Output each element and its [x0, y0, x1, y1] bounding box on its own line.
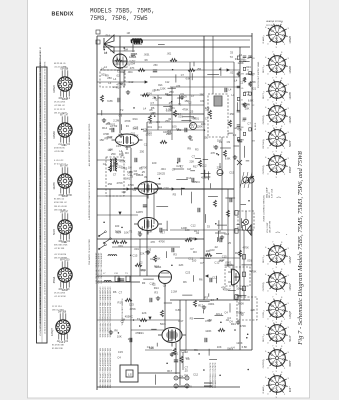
svg-text:.0001: .0001: [192, 117, 199, 121]
svg-text:C7: C7: [185, 356, 189, 360]
svg-text:IF AMP: IF AMP: [262, 386, 265, 393]
svg-text:2.2M: 2.2M: [166, 108, 173, 112]
svg-text:MODELS 75B5, 75M5,: MODELS 75B5, 75M5,: [90, 8, 155, 15]
svg-text:C2: C2: [139, 260, 143, 264]
svg-text:12SA7: 12SA7: [289, 256, 292, 264]
svg-text:47K: 47K: [130, 66, 135, 70]
svg-text:250: 250: [204, 136, 209, 140]
svg-text:C23: C23: [129, 302, 134, 306]
svg-text:R21: R21: [145, 250, 150, 254]
svg-text:C4: C4: [176, 127, 180, 131]
svg-text:.0001: .0001: [225, 261, 232, 265]
svg-text:C7: C7: [113, 172, 117, 176]
svg-text:.004: .004: [145, 179, 151, 183]
svg-text:.001: .001: [134, 247, 140, 251]
svg-text:6X5: 6X5: [289, 387, 292, 392]
svg-text:DET AVC: DET AVC: [262, 139, 265, 148]
svg-text:L4: L4: [234, 79, 237, 83]
svg-text:22: 22: [252, 105, 254, 107]
svg-text:.05 12 68 1M: .05 12 68 1M: [54, 254, 66, 256]
svg-text:C9: C9: [200, 99, 204, 103]
svg-text:12 12 22 22: 12 12 22 22: [54, 109, 66, 111]
svg-text:33: 33: [235, 57, 238, 61]
svg-text:L4: L4: [167, 93, 170, 97]
svg-text:C15: C15: [116, 144, 121, 148]
svg-text:C2: C2: [144, 142, 148, 146]
svg-text:.0001: .0001: [177, 96, 184, 100]
svg-text:250: 250: [199, 93, 204, 97]
svg-text:OUTPUT: OUTPUT: [263, 165, 265, 174]
svg-text:.02 1K 33K: .02 1K 33K: [54, 248, 65, 250]
svg-text:6.8K: 6.8K: [248, 98, 254, 102]
svg-text:.05: .05: [150, 346, 154, 350]
svg-text:R21: R21: [119, 152, 124, 156]
svg-text:47K: 47K: [150, 240, 155, 244]
svg-text:R14: R14: [176, 112, 181, 116]
svg-text:C2: C2: [134, 169, 138, 173]
svg-text:470K: 470K: [243, 245, 249, 249]
svg-text:.25: .25: [161, 171, 165, 175]
svg-text:C2: C2: [233, 133, 237, 137]
svg-text:R3: R3: [193, 250, 197, 254]
svg-text:RECT: RECT: [263, 66, 265, 72]
svg-text:R3: R3: [138, 230, 142, 234]
svg-text:0 6.3 117 22 1: 0 6.3 117 22 1: [44, 270, 46, 282]
svg-text:12 8.4 0 98 85: 12 8.4 0 98 85: [44, 75, 46, 87]
svg-text:R17: R17: [167, 369, 172, 373]
svg-text:C12: C12: [188, 256, 193, 260]
svg-text:12 8.4 0 98 85: 12 8.4 0 98 85: [44, 205, 46, 217]
svg-text:C4: C4: [156, 120, 160, 124]
svg-text:L4: L4: [113, 77, 116, 81]
svg-text:USE ONLY EXACT REPLACEMENT PAR: USE ONLY EXACT REPLACEMENT PART WH: [109, 347, 112, 388]
svg-text:C4: C4: [158, 125, 162, 129]
svg-text:RECT: RECT: [263, 256, 265, 262]
svg-text:R17: R17: [193, 164, 198, 168]
svg-text:50C5: 50C5: [160, 323, 166, 326]
svg-text:R17: R17: [198, 303, 203, 307]
svg-text:L4: L4: [168, 130, 171, 134]
svg-text:470K: 470K: [124, 119, 130, 123]
svg-text:0 6.3 117 22 1: 0 6.3 117 22 1: [44, 296, 46, 308]
svg-text:C4: C4: [210, 298, 214, 302]
svg-text:.0001: .0001: [208, 302, 215, 306]
svg-text:R17: R17: [178, 319, 183, 323]
svg-text:15K: 15K: [184, 99, 189, 103]
svg-text:RECT: RECT: [263, 92, 265, 98]
svg-text:470K: 470K: [128, 183, 134, 187]
svg-text:SW1: SW1: [120, 70, 126, 74]
svg-text:33: 33: [219, 140, 222, 144]
svg-text:455KC: 455KC: [125, 315, 133, 319]
svg-text:12 12 12 0: 12 12 12 0: [52, 306, 63, 308]
svg-text:33: 33: [126, 124, 129, 128]
svg-text:C4: C4: [117, 355, 121, 359]
svg-text:.05: .05: [242, 119, 246, 123]
svg-text:75M3, 75P6, 75W5: 75M3, 75P6, 75W5: [90, 15, 148, 22]
svg-text:33K 33K 470K: 33K 33K 470K: [54, 245, 68, 247]
svg-text:R14: R14: [102, 126, 107, 130]
svg-text:SPEAKER FIELD COIL NOTE: SPEAKER FIELD COIL NOTE: [214, 362, 217, 388]
svg-text:C15: C15: [229, 171, 234, 175]
svg-text:1M .05 .05 68: 1M .05 .05 68: [54, 206, 68, 208]
svg-text:560K: 560K: [155, 182, 161, 186]
svg-text:BENDIX: BENDIX: [52, 12, 74, 18]
svg-text:85 33K 33K: 85 33K 33K: [52, 348, 63, 350]
svg-text:.02 85 33K: .02 85 33K: [54, 151, 65, 153]
svg-text:10K: 10K: [206, 249, 211, 253]
svg-text:C12: C12: [193, 372, 198, 376]
svg-text:.004: .004: [160, 167, 166, 171]
svg-text:R14: R14: [133, 117, 138, 121]
svg-text:.004: .004: [188, 236, 194, 240]
svg-text:12 8.4 0 98 85: 12 8.4 0 98 85: [44, 140, 46, 152]
svg-text:R6: R6: [114, 329, 118, 333]
svg-text:SW1: SW1: [227, 347, 233, 351]
svg-text:C4: C4: [184, 373, 188, 377]
svg-text:470K: 470K: [182, 108, 188, 112]
svg-text:1M 47 1M 1M: 1M 47 1M 1M: [54, 257, 67, 259]
svg-text:12 8.4 0 98 85: 12 8.4 0 98 85: [44, 166, 46, 178]
svg-text:C7: C7: [154, 191, 158, 195]
svg-text:250: 250: [140, 149, 145, 153]
svg-text:ON-OFF SW: ON-OFF SW: [270, 221, 272, 233]
svg-text:C9: C9: [151, 224, 155, 228]
svg-text:4.7 100 85 0 9: 4.7 100 85 0 9: [44, 127, 46, 139]
svg-text:R3: R3: [205, 295, 209, 299]
svg-text:250: 250: [197, 68, 202, 71]
svg-text:SW1: SW1: [239, 57, 245, 61]
svg-text:47K: 47K: [221, 286, 226, 290]
svg-text:C9: C9: [163, 283, 167, 287]
svg-text:22K: 22K: [140, 252, 145, 256]
svg-text:C12: C12: [107, 135, 112, 139]
svg-text:R21: R21: [158, 84, 163, 87]
svg-text:470K: 470K: [119, 159, 125, 163]
svg-text:120K: 120K: [205, 329, 211, 333]
svg-text:.05: .05: [154, 187, 158, 191]
svg-text:250: 250: [157, 96, 162, 100]
svg-text:C4: C4: [227, 316, 231, 320]
svg-text:470K: 470K: [116, 181, 122, 185]
svg-text:35W4: 35W4: [53, 276, 56, 283]
svg-text:120K: 120K: [160, 87, 166, 90]
svg-text:C23: C23: [164, 186, 169, 190]
svg-text:1K 1K 470K: 1K 1K 470K: [54, 293, 66, 295]
svg-text:1M .05 .05 47: 1M .05 .05 47: [54, 112, 68, 114]
svg-text:560K: 560K: [238, 302, 244, 306]
svg-text:.25: .25: [189, 110, 193, 114]
svg-text:C15: C15: [118, 350, 123, 354]
svg-text:470K: 470K: [250, 269, 256, 273]
svg-text:L4: L4: [113, 85, 116, 89]
svg-text:12AT6: 12AT6: [53, 182, 56, 190]
svg-text:100: 100: [152, 161, 157, 165]
svg-text:.001: .001: [247, 259, 253, 263]
svg-text:250: 250: [230, 112, 235, 116]
svg-text:USE ONLY EXACT REPLACEMENT: USE ONLY EXACT REPLACEMENT: [100, 252, 103, 284]
svg-text:R17: R17: [118, 301, 123, 305]
svg-text:12BE6: 12BE6: [53, 85, 56, 93]
svg-text:22: 22: [252, 73, 254, 75]
svg-text:L4: L4: [104, 65, 107, 69]
svg-text:IF AMP: IF AMP: [262, 36, 265, 43]
svg-text:ALL RESISTORS 1/2 WATT UNLESS: ALL RESISTORS 1/2 WATT UNLESS NOTED: [88, 123, 91, 166]
svg-text:12SK7: 12SK7: [289, 283, 292, 291]
svg-text:100: 100: [118, 81, 123, 85]
svg-text:R6: R6: [183, 280, 187, 284]
svg-text:L4: L4: [228, 87, 231, 91]
svg-text:12 8.4 0 98 85: 12 8.4 0 98 85: [44, 153, 46, 165]
svg-text:12BE6: 12BE6: [289, 36, 292, 44]
svg-text:.02: .02: [189, 138, 193, 142]
svg-text:0 6.3 117 22 1: 0 6.3 117 22 1: [44, 179, 46, 191]
svg-text:T2: T2: [129, 229, 133, 233]
svg-text:.05 22 22 1M: .05 22 22 1M: [54, 66, 66, 68]
svg-text:470K: 470K: [141, 166, 147, 170]
svg-text:250: 250: [128, 337, 133, 341]
svg-text:.02: .02: [214, 245, 218, 249]
svg-text:C7: C7: [191, 94, 195, 98]
svg-text:12 8.4 0 98 85: 12 8.4 0 98 85: [44, 114, 46, 126]
svg-text:470K: 470K: [67, 195, 73, 197]
svg-text:R17: R17: [154, 265, 159, 269]
svg-text:12AT6: 12AT6: [136, 211, 144, 214]
svg-text:470K 33K .02: 470K 33K .02: [54, 202, 67, 204]
svg-text:R6: R6: [199, 277, 203, 281]
svg-text:33: 33: [207, 225, 210, 229]
svg-text:12 8.4 0 98 85: 12 8.4 0 98 85: [44, 101, 46, 113]
svg-text:68 22 68 .05: 68 22 68 .05: [54, 63, 66, 65]
svg-text:C9: C9: [230, 268, 234, 272]
svg-text:L4: L4: [110, 124, 113, 128]
svg-text:.05: .05: [252, 58, 255, 60]
svg-text:1M: 1M: [252, 140, 255, 142]
svg-text:22K: 22K: [179, 263, 184, 267]
svg-text:T2: T2: [178, 102, 182, 106]
svg-text:12 8.4 0 98 85: 12 8.4 0 98 85: [44, 283, 46, 295]
svg-text:12AT6: 12AT6: [289, 92, 292, 100]
svg-text:T2: T2: [141, 189, 145, 193]
svg-text:22K: 22K: [250, 308, 255, 312]
svg-text:0 6.3 117 22 1: 0 6.3 117 22 1: [44, 309, 46, 321]
svg-text:12BA6: 12BA6: [53, 131, 56, 139]
svg-text:0 .05 0 22: 0 .05 0 22: [54, 160, 64, 162]
svg-text:12 8.4 0 98 85: 12 8.4 0 98 85: [44, 218, 46, 230]
svg-text:C7: C7: [247, 121, 251, 125]
svg-text:R14: R14: [231, 322, 236, 326]
svg-text:1K 1K 470K: 1K 1K 470K: [54, 102, 66, 104]
svg-text:R14: R14: [154, 286, 159, 290]
svg-text:B+ BUS: B+ BUS: [255, 122, 257, 130]
svg-text:R21: R21: [235, 251, 240, 255]
svg-text:C7: C7: [185, 365, 189, 369]
svg-text:6.8K: 6.8K: [107, 99, 113, 103]
svg-text:85 470K 33K: 85 470K 33K: [52, 345, 65, 347]
svg-text:100: 100: [213, 144, 218, 148]
svg-text:L4: L4: [191, 125, 194, 129]
svg-text:.25: .25: [141, 170, 145, 174]
svg-text:22K: 22K: [189, 159, 194, 163]
svg-text:15K: 15K: [251, 80, 256, 84]
svg-text:10K: 10K: [217, 345, 222, 349]
svg-text:12 8.4 0 98 85: 12 8.4 0 98 85: [44, 231, 46, 243]
svg-text:22K: 22K: [217, 166, 222, 170]
svg-text:RECT: RECT: [263, 335, 265, 341]
svg-text:C2: C2: [112, 157, 116, 161]
svg-text:0 6.3 117 22 1: 0 6.3 117 22 1: [44, 257, 46, 269]
svg-text:R9: R9: [187, 146, 191, 150]
svg-text:120K: 120K: [197, 124, 203, 128]
svg-text:Fig 7 - Schematic Diagram Mode: Fig 7 - Schematic Diagram Models 75B5, 7…: [297, 151, 304, 346]
svg-text:33: 33: [230, 51, 233, 55]
svg-text:A REPRINT BELOW CHASSIS OF EXA: A REPRINT BELOW CHASSIS OF EXACT: [88, 179, 91, 219]
svg-text:470K: 470K: [240, 324, 246, 328]
svg-text:R6: R6: [194, 348, 198, 352]
svg-text:R6: R6: [113, 290, 117, 294]
svg-text:C2: C2: [240, 81, 244, 85]
svg-text:USE ONLY EXACT REPLACEMENT PAR: USE ONLY EXACT REPLACEMENT PART WHEN SER…: [109, 286, 112, 337]
svg-text:PILOT LIGHT SUPPLY LEAD: PILOT LIGHT SUPPLY LEAD: [257, 61, 260, 88]
svg-text:C7: C7: [172, 168, 176, 172]
svg-text:C7: C7: [180, 164, 184, 168]
svg-text:C7: C7: [151, 101, 155, 105]
svg-text:R21: R21: [251, 87, 256, 91]
svg-text:C12: C12: [219, 258, 224, 262]
svg-text:1M: 1M: [241, 127, 244, 129]
svg-text:L4: L4: [231, 93, 234, 97]
svg-text:47K: 47K: [176, 85, 181, 88]
svg-text:10K: 10K: [117, 335, 122, 339]
svg-text:15K: 15K: [179, 374, 184, 378]
svg-text:.0001: .0001: [139, 268, 146, 272]
svg-text:C12: C12: [128, 80, 133, 84]
svg-text:CONV: CONV: [263, 311, 265, 318]
svg-text:250: 250: [108, 182, 113, 186]
svg-text:50C5: 50C5: [289, 140, 292, 146]
svg-text:R3: R3: [142, 281, 146, 285]
svg-text:.02 .02 470K: .02 .02 470K: [54, 296, 66, 298]
svg-text:250: 250: [153, 64, 158, 67]
svg-text:15K: 15K: [156, 256, 161, 260]
svg-text:470K: 470K: [159, 239, 165, 243]
svg-text:C23: C23: [181, 349, 186, 353]
svg-text:R3: R3: [170, 353, 174, 357]
svg-text:R3: R3: [126, 62, 130, 66]
svg-text:T2: T2: [230, 55, 234, 59]
svg-text:.0001: .0001: [185, 385, 192, 389]
svg-text:6.3V .15A: 6.3V .15A: [271, 188, 274, 198]
svg-text:C12: C12: [165, 81, 170, 84]
svg-text:22K: 22K: [114, 62, 119, 66]
svg-text:R3: R3: [154, 290, 158, 294]
svg-text:.0001: .0001: [161, 228, 168, 232]
svg-text:R14: R14: [116, 231, 121, 235]
svg-text:50C5: 50C5: [53, 228, 56, 235]
svg-text:1M 0 1M .05: 1M 0 1M .05: [54, 209, 66, 211]
svg-text:.02: .02: [195, 231, 199, 235]
svg-text:.001: .001: [167, 52, 172, 55]
svg-text:R3: R3: [173, 253, 177, 257]
svg-text:C9: C9: [180, 92, 184, 96]
svg-text:C15: C15: [132, 254, 137, 258]
svg-text:1M: 1M: [127, 32, 130, 35]
svg-text:SW1: SW1: [132, 126, 138, 130]
svg-text:1M 0 12 68: 1M 0 12 68: [52, 309, 63, 311]
svg-text:C12: C12: [202, 163, 207, 167]
svg-text:35Z5: 35Z5: [289, 361, 292, 367]
svg-text:50L6: 50L6: [289, 336, 292, 342]
svg-text:VOLTAGES MEASURED TO B- CHASSI: VOLTAGES MEASURED TO B- CHASSIS: [39, 297, 42, 336]
svg-text:100: 100: [236, 287, 241, 291]
svg-text:C7: C7: [205, 117, 209, 121]
svg-text:R3: R3: [195, 148, 199, 152]
svg-text:15K: 15K: [114, 162, 119, 166]
svg-text:100: 100: [185, 228, 190, 232]
svg-text:.001: .001: [118, 244, 124, 248]
svg-text:.25: .25: [168, 101, 172, 105]
svg-text:6.8K: 6.8K: [225, 157, 231, 161]
svg-text:R3: R3: [173, 193, 177, 197]
svg-text:R14: R14: [106, 35, 111, 38]
svg-text:THE RATIO OF AS NOTED: THE RATIO OF AS NOTED: [88, 239, 91, 265]
svg-text:100: 100: [172, 125, 177, 129]
svg-text:6.8K: 6.8K: [119, 132, 125, 136]
svg-text:.05: .05: [148, 121, 152, 125]
svg-text:35W4: 35W4: [289, 166, 292, 173]
svg-text:C15: C15: [222, 254, 227, 258]
svg-text:.004: .004: [130, 62, 136, 66]
svg-text:470K 85 85: 470K 85 85: [54, 148, 65, 150]
svg-text:C9: C9: [183, 94, 187, 98]
svg-text:OUTPUT: OUTPUT: [263, 282, 265, 291]
svg-text:455KC: 455KC: [192, 180, 200, 184]
svg-text:.0001: .0001: [144, 54, 151, 57]
svg-text:0 6.3 117 22 1: 0 6.3 117 22 1: [44, 192, 46, 204]
svg-text:2.2M: 2.2M: [113, 118, 120, 122]
svg-text:12BA6: 12BA6: [289, 66, 292, 74]
svg-text:.05: .05: [152, 89, 156, 93]
svg-text:22K: 22K: [142, 311, 147, 315]
svg-text:1M: 1M: [247, 58, 250, 60]
svg-text:470K: 470K: [205, 319, 211, 323]
svg-text:100: 100: [115, 224, 120, 228]
svg-text:C2: C2: [121, 319, 125, 323]
svg-text:C9: C9: [133, 188, 137, 192]
svg-text:C9: C9: [119, 114, 123, 118]
svg-text:R21: R21: [118, 66, 123, 70]
svg-text:.05: .05: [241, 88, 244, 90]
svg-text:C12: C12: [117, 140, 122, 144]
svg-text:L4: L4: [151, 112, 154, 116]
svg-text:.02: .02: [229, 71, 233, 75]
svg-text:12 8.4 0 98 85: 12 8.4 0 98 85: [44, 322, 46, 334]
svg-text:(TONE CONTROL SWITCH): (TONE CONTROL SWITCH): [264, 195, 266, 222]
svg-text:.004: .004: [245, 72, 251, 76]
svg-text:C7: C7: [119, 291, 123, 295]
svg-text:.25: .25: [152, 96, 156, 100]
svg-text:R3: R3: [125, 151, 129, 155]
svg-text:LS: LS: [128, 373, 132, 377]
svg-text:.001: .001: [147, 125, 153, 129]
svg-text:10K: 10K: [108, 148, 113, 152]
svg-text:C7: C7: [200, 261, 204, 265]
svg-text:47K: 47K: [143, 127, 148, 131]
svg-text:C4: C4: [224, 310, 228, 314]
svg-text:.02: .02: [116, 74, 120, 78]
svg-text:12 8.4 0 98 85: 12 8.4 0 98 85: [44, 62, 46, 74]
svg-text:22: 22: [247, 69, 249, 71]
